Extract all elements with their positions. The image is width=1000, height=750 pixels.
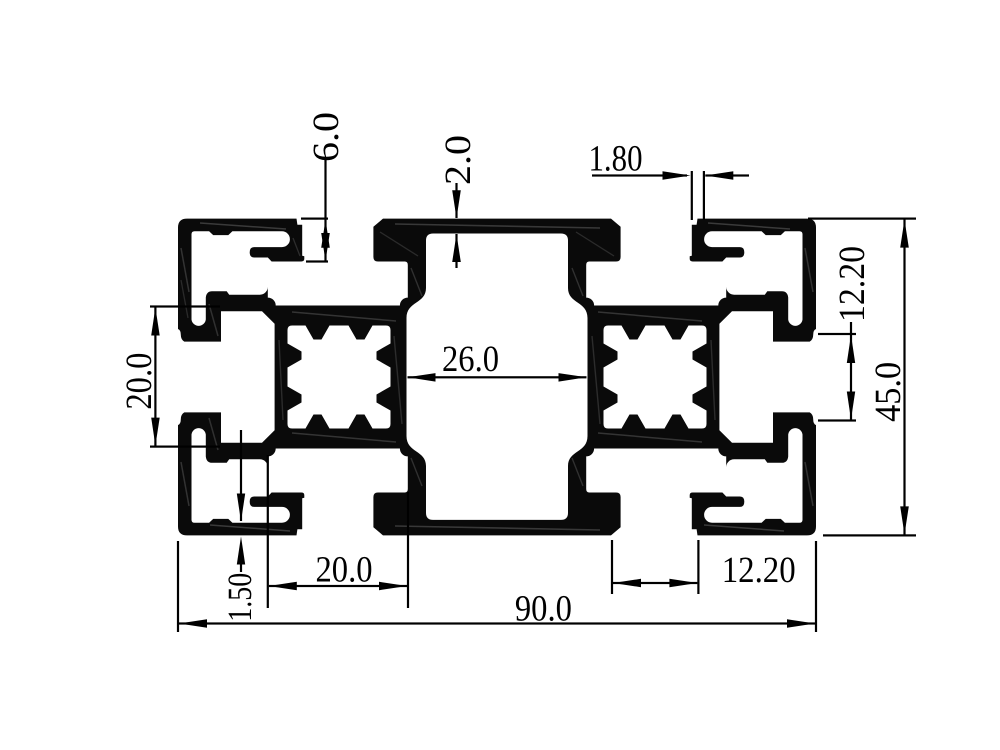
svg-text:6.0: 6.0 bbox=[306, 112, 347, 162]
svg-text:20.0: 20.0 bbox=[316, 549, 373, 590]
svg-text:1.50: 1.50 bbox=[222, 573, 259, 622]
svg-text:45.0: 45.0 bbox=[868, 362, 909, 422]
svg-text:1.80: 1.80 bbox=[588, 139, 642, 180]
svg-text:12.20: 12.20 bbox=[722, 550, 796, 591]
svg-text:26.0: 26.0 bbox=[442, 339, 499, 380]
svg-text:20.0: 20.0 bbox=[119, 353, 160, 410]
svg-text:2.0: 2.0 bbox=[438, 135, 479, 185]
svg-text:12.20: 12.20 bbox=[832, 246, 873, 322]
